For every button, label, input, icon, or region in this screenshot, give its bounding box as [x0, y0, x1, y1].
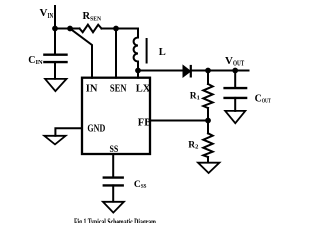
node R1 top junction	[205, 68, 211, 74]
svg-text:FB: FB	[138, 118, 151, 129]
svg-text:CSS: CSS	[134, 179, 147, 190]
wire	[70, 28, 80, 30]
ground	[103, 202, 124, 213]
svg-text:RSEN: RSEN	[83, 11, 102, 22]
wire	[116, 29, 138, 38]
wire	[54, 62, 56, 79]
node R_SEN left junction	[67, 26, 73, 32]
node SEN junction	[113, 26, 119, 32]
ground	[45, 79, 66, 91]
resistor R2	[203, 133, 212, 157]
svg-text:GND: GND	[87, 124, 105, 135]
wire	[191, 70, 249, 72]
node LX junction	[135, 68, 141, 74]
wire	[137, 71, 139, 78]
svg-text:R1: R1	[190, 92, 200, 102]
wire	[112, 154, 114, 177]
wire	[234, 98, 236, 111]
wire	[150, 120, 208, 122]
capacitor C_SS	[104, 178, 123, 186]
capacitor C_IN	[44, 55, 66, 62]
diode D1	[183, 65, 191, 77]
wire	[55, 128, 82, 136]
svg-text:VOUT: VOUT	[225, 55, 245, 68]
wire	[112, 185, 114, 201]
node C_OUT junction	[232, 68, 238, 74]
svg-text:COUT: COUT	[255, 93, 272, 104]
svg-text:SEN: SEN	[110, 84, 127, 95]
wire	[207, 108, 209, 121]
ground	[198, 163, 219, 173]
svg-text:R2: R2	[188, 141, 198, 151]
wire	[70, 29, 92, 78]
svg-text:L: L	[159, 47, 166, 58]
wire	[207, 121, 209, 134]
resistor R_SEN	[80, 25, 102, 33]
svg-text:IN: IN	[86, 84, 98, 95]
inductor L core bar	[146, 39, 148, 63]
svg-text:CIN: CIN	[28, 55, 43, 66]
node FB junction	[205, 118, 211, 124]
resistor R1	[203, 84, 212, 108]
wire	[207, 71, 209, 85]
node V_IN junction	[52, 26, 58, 32]
wire	[207, 157, 209, 163]
wire	[55, 28, 70, 30]
wire	[102, 28, 117, 30]
wire	[54, 6, 56, 55]
IC U1 box	[82, 78, 150, 154]
svg-text:VIN: VIN	[40, 7, 54, 20]
inductor L	[134, 38, 138, 69]
ground	[44, 136, 65, 145]
wire	[138, 70, 183, 72]
svg-text:LX: LX	[136, 84, 151, 95]
capacitor C_OUT	[225, 88, 247, 98]
ground	[225, 111, 245, 123]
wire	[115, 29, 117, 78]
wire	[234, 71, 236, 88]
svg-text:Fig.1 Typical Schematic Diagra: Fig.1 Typical Schematic Diagram	[74, 217, 156, 223]
